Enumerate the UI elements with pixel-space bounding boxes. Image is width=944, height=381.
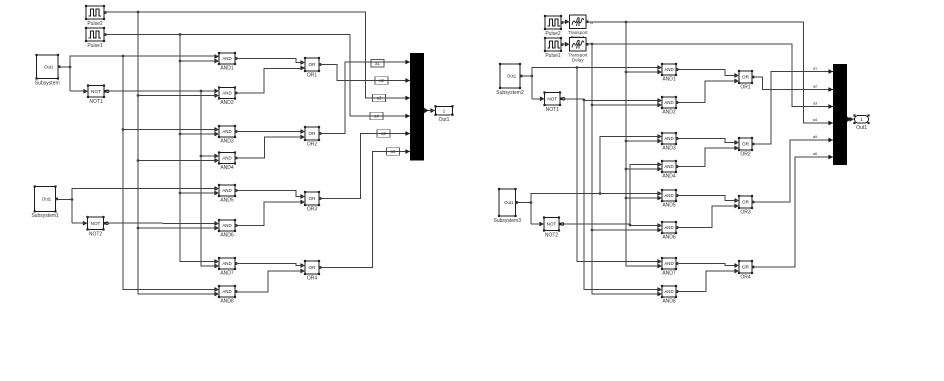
svg-text:AND: AND	[664, 67, 673, 72]
OR gate OR3 right	[734, 195, 754, 216]
wire Subsystem2 up branch to AND1 right	[532, 66, 662, 99]
svg-text:AND2: AND2	[662, 110, 676, 116]
svg-text:AND: AND	[222, 56, 231, 61]
svg-text:OR: OR	[742, 200, 750, 205]
input port arrow Mux right in3	[828, 104, 833, 109]
svg-text:AND: AND	[222, 91, 231, 96]
wire AND7 right to OR4 in1	[676, 264, 739, 266]
wire AND2 right to OR1 in2	[676, 81, 739, 103]
tap to AND3 right in2	[626, 140, 662, 142]
svg-text:Subsystem1: Subsystem1	[31, 213, 59, 219]
signal tag a6	[387, 148, 400, 156]
OR gate OR4 right	[734, 260, 754, 281]
svg-text:AND: AND	[664, 136, 673, 141]
signal tag a4	[370, 112, 383, 120]
svg-text:AND: AND	[222, 223, 231, 228]
svg-text:AND1: AND1	[220, 66, 234, 72]
outport Out1	[430, 105, 453, 123]
wire Subsystem up branch to AND1	[70, 55, 219, 91]
wire OR2 right to Mux in1	[752, 72, 833, 145]
svg-text:AND6: AND6	[662, 235, 676, 241]
svg-text:OR: OR	[309, 62, 317, 67]
mux block Mux right	[833, 64, 847, 165]
input port arrow Mux in1	[405, 60, 410, 65]
rail x584 NOT1 down	[584, 100, 662, 290]
svg-text:AND5: AND5	[220, 198, 234, 204]
svg-text:OR3: OR3	[740, 210, 751, 216]
wire NOT1 right out to AND2 right	[562, 99, 663, 102]
svg-text:OR: OR	[309, 131, 317, 136]
tap to AND5 in2	[180, 192, 219, 194]
svg-text:AND: AND	[664, 193, 673, 198]
pulse generator Pulse1 right	[544, 37, 564, 59]
input port arrow Mux right in4	[828, 121, 833, 126]
input port arrow Mux right in1	[828, 69, 833, 74]
svg-text:AND: AND	[664, 164, 673, 169]
AND gate AND4	[214, 151, 237, 171]
wire OR2 to Mux in1	[319, 62, 410, 134]
svg-text:AND: AND	[664, 100, 673, 105]
svg-text:OR3: OR3	[307, 207, 318, 213]
svg-text:NOT2: NOT2	[89, 231, 103, 237]
svg-text:Subsystem2: Subsystem2	[496, 90, 524, 96]
rail subsystem x123	[122, 56, 219, 290]
svg-text:AND1: AND1	[662, 77, 676, 83]
tap to AND4 in1	[201, 155, 219, 157]
svg-text:Out1: Out1	[44, 64, 54, 69]
svg-text:AND: AND	[664, 261, 673, 266]
signal tag a3	[373, 94, 386, 102]
svg-text:Subsystem: Subsystem	[35, 80, 60, 86]
svg-text:AND4: AND4	[662, 174, 676, 180]
svg-text:Delay: Delay	[572, 58, 584, 63]
tap to AND6 in2	[138, 227, 219, 229]
wire Subsystem2 out branch	[520, 75, 533, 78]
svg-text:AND5: AND5	[662, 203, 676, 209]
svg-text:OR: OR	[309, 196, 317, 201]
signal tag a1	[371, 60, 384, 68]
svg-text:OR: OR	[742, 265, 750, 270]
wire NOT1 out to AND2	[106, 90, 220, 93]
rail x630 NOT2 up	[630, 165, 662, 226]
input port arrow Mux right in6	[828, 155, 833, 160]
input port arrow Mux right in2	[828, 87, 833, 92]
svg-text:Out1: Out1	[42, 197, 52, 202]
subsystem block Subsystem1	[31, 185, 59, 219]
subsystem block Subsystem2	[496, 63, 524, 96]
wire AND7 to OR4 in1	[235, 264, 305, 266]
tap to AND1 right in2	[626, 71, 662, 73]
tap to AND4 in2	[138, 160, 219, 162]
tap to AND6 right in2	[592, 229, 662, 231]
svg-text:AND4: AND4	[220, 165, 234, 171]
svg-text:OR: OR	[742, 75, 750, 80]
AND gate AND5 right	[657, 189, 678, 209]
signal tag a5	[377, 130, 390, 138]
wire Mux to Out1	[424, 110, 435, 112]
svg-text:a1: a1	[813, 67, 817, 71]
wire AND3 to OR2 in1	[235, 131, 305, 133]
svg-text:Out1: Out1	[439, 117, 450, 123]
wire into NOT1 right	[532, 98, 545, 100]
NOT gate NOT2	[83, 216, 108, 237]
wire Pulse2 right to Transport Delay1	[561, 21, 570, 23]
tap to AND2 in2	[138, 95, 219, 97]
rail pulse2 x138	[137, 12, 219, 294]
NOT gate NOT2 right	[539, 216, 563, 238]
AND gate AND7	[214, 257, 237, 277]
svg-text:Out1: Out1	[504, 200, 514, 205]
svg-text:Pulse1: Pulse1	[545, 53, 561, 59]
svg-text:AND: AND	[222, 156, 231, 161]
input port arrow Mux in2	[405, 78, 410, 83]
AND gate AND6	[214, 219, 237, 239]
svg-text:AND3: AND3	[662, 146, 676, 152]
svg-text:AND: AND	[222, 261, 231, 266]
svg-text:OR4: OR4	[307, 276, 318, 282]
svg-text:AND: AND	[222, 188, 231, 193]
AND gate AND2	[214, 86, 237, 106]
svg-text:AND3: AND3	[220, 139, 234, 145]
wire into NOT1	[70, 90, 88, 92]
svg-text:OR2: OR2	[740, 152, 751, 158]
OR gate OR3	[300, 191, 321, 213]
NOT gate NOT1 right	[540, 91, 565, 112]
svg-text:OR: OR	[309, 265, 317, 270]
svg-text:AND: AND	[222, 289, 231, 294]
wire Subsystem out branch	[58, 66, 71, 69]
input port arrow Mux in4	[405, 114, 410, 119]
OR gate OR4	[300, 260, 321, 282]
wire AND1 right to OR1 in1	[676, 70, 739, 76]
outport Out1 right	[849, 114, 869, 131]
AND gate AND3 right	[657, 132, 678, 152]
wire into NOT2	[72, 222, 88, 224]
wire OR4 right to Mux in6	[752, 157, 833, 267]
wire AND8 right to OR4 in2	[676, 271, 739, 292]
tap to AND3 in1	[123, 129, 219, 131]
AND gate AND1	[214, 52, 237, 72]
rail pulse1 x180	[179, 35, 219, 262]
wire OR3 to Mux in5	[319, 134, 410, 199]
svg-text:Pulse1: Pulse1	[87, 43, 103, 49]
svg-text:AND8: AND8	[220, 299, 234, 305]
svg-text:NOT2: NOT2	[545, 232, 559, 238]
wire AND5 right to OR3 in1	[676, 196, 739, 201]
svg-text:NOT: NOT	[547, 96, 557, 101]
wire OR4 to Mux in6	[319, 152, 410, 268]
svg-text:Pulse2: Pulse2	[545, 31, 561, 37]
svg-text:AND: AND	[664, 225, 673, 230]
tap to AND5 right in2	[626, 197, 662, 199]
wire OR1 right to Mux in2	[752, 77, 833, 90]
wire Subsystem1 out branch	[56, 198, 74, 201]
svg-text:NOT: NOT	[91, 221, 101, 226]
svg-text:AND2: AND2	[220, 100, 234, 106]
wire Mux right to Out1	[847, 118, 854, 120]
OR gate OR1	[300, 57, 321, 79]
signal tag a2	[375, 77, 388, 85]
wire Transport Delay1 to Mux in4 right	[586, 21, 833, 123]
wire AND8 to OR4 in2	[235, 271, 305, 292]
wire AND3 right to OR2 in1	[676, 139, 739, 143]
wire AND6 right to OR3 in2	[676, 206, 739, 228]
wire AND4 to OR2 in2	[235, 137, 305, 158]
tap to AND2 right in2	[592, 104, 662, 106]
AND gate AND7 right	[657, 257, 678, 277]
subsystem block Subsystem3	[493, 188, 521, 224]
rail x592 delay	[591, 44, 662, 294]
AND gate AND2 right	[657, 96, 678, 116]
AND gate AND5	[214, 184, 237, 204]
subsystem block Subsystem	[35, 54, 61, 86]
wire AND1 to OR1 in1	[235, 59, 305, 63]
pulse generator Pulse2	[85, 5, 107, 27]
svg-text:Pulse2: Pulse2	[87, 21, 103, 27]
tap to AND1 in2	[180, 60, 219, 62]
wire AND2 to OR1 in2	[235, 69, 305, 94]
svg-text:NOT: NOT	[547, 222, 557, 227]
mux right output port mark	[847, 117, 851, 123]
svg-text:AND7: AND7	[662, 271, 676, 277]
svg-text:NOT: NOT	[91, 89, 101, 94]
wire Subsystem3 up branch to AND5 right	[531, 192, 662, 224]
OR gate OR1 right	[734, 70, 754, 91]
OR gate OR2 right	[734, 137, 754, 158]
wire into NOT2 right	[531, 223, 544, 225]
tap to AND4 right in2	[626, 168, 662, 170]
svg-text:a5: a5	[813, 135, 817, 139]
svg-text:NOT1: NOT1	[546, 107, 560, 113]
input port arrow Mux in5	[405, 131, 410, 136]
wire AND6 to OR3 in2	[235, 202, 305, 226]
svg-text:NOT1: NOT1	[89, 99, 103, 105]
wire AND5 to OR3 in1	[235, 191, 305, 197]
rail x600 subsystem3 up	[600, 137, 662, 194]
svg-text:AND: AND	[664, 289, 673, 294]
wire Pulse2 to Mux in3	[104, 11, 410, 98]
wire OR1 to Mux in2	[319, 65, 410, 81]
NOT gate NOT1	[83, 84, 108, 104]
AND gate AND8 right	[657, 285, 678, 305]
svg-text:AND: AND	[222, 129, 231, 134]
AND gate AND1 right	[657, 63, 678, 83]
pulse generator Pulse2 right	[544, 15, 564, 37]
wire Pulse1 right to Transport Delay	[561, 43, 570, 45]
wire AND4 right to OR2 in2	[676, 148, 739, 167]
svg-text:a6: a6	[813, 152, 817, 156]
tap to AND3 in2	[180, 133, 219, 135]
svg-text:AND6: AND6	[220, 233, 234, 239]
svg-text:Out1: Out1	[856, 125, 867, 131]
wire Pulse1 to Mux in4	[104, 33, 410, 116]
AND gate AND8	[214, 285, 237, 305]
svg-text:a4: a4	[813, 118, 817, 122]
mux output port mark	[424, 108, 429, 113]
input port arrow Mux right in5	[828, 138, 833, 143]
wire Subsystem1 up branch to AND5	[72, 189, 219, 224]
transport delay block Transport Delay	[565, 38, 589, 63]
svg-text:OR2: OR2	[307, 142, 318, 148]
mux block Mux	[410, 53, 424, 161]
svg-text:Subsystem3: Subsystem3	[493, 218, 521, 224]
AND gate AND6 right	[657, 221, 678, 241]
AND gate AND4 right	[657, 160, 678, 180]
svg-text:a2: a2	[813, 85, 817, 89]
wire Subsystem3 out branch	[516, 201, 533, 204]
svg-text:a3: a3	[813, 102, 817, 106]
svg-text:AND8: AND8	[662, 299, 676, 305]
rail x626 delay1	[625, 22, 662, 266]
svg-text:OR1: OR1	[740, 85, 751, 91]
rail NOT1 x201	[200, 91, 219, 266]
svg-text:AND7: AND7	[220, 271, 234, 277]
pulse generator Pulse1	[85, 27, 107, 49]
rail x577 subsystem2 down	[577, 68, 662, 262]
wire NOT2 out to AND6	[104, 222, 219, 225]
wire NOT2 right out to AND6 right	[561, 224, 663, 227]
wire OR3 right to Mux in5	[752, 140, 833, 202]
wire Transport Delay to Mux in3 right	[586, 43, 833, 107]
svg-text:OR4: OR4	[740, 275, 751, 281]
AND gate AND3	[214, 125, 237, 145]
transport delay block Transport Delay1	[565, 15, 589, 40]
OR gate OR2	[300, 126, 321, 148]
input port arrow Mux in6	[405, 149, 410, 154]
input port arrow Mux in3	[405, 96, 410, 101]
svg-text:OR1: OR1	[307, 73, 318, 79]
svg-text:OR: OR	[742, 142, 750, 147]
svg-text:Out1: Out1	[507, 74, 517, 79]
